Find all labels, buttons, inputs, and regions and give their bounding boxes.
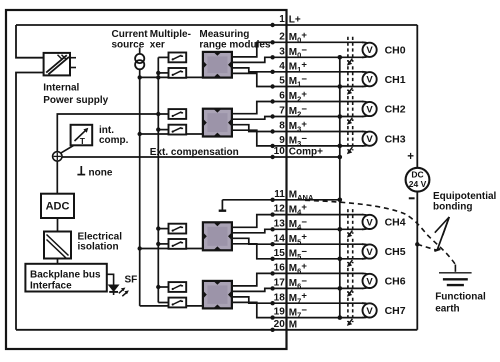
cable shield dashes CH7 [347, 298, 349, 322]
cable arrow CH6 [348, 290, 352, 295]
voltmeter CH0 connector [362, 42, 371, 45]
bus B to switch 4 [158, 129, 168, 131]
cable arrow CH5 [348, 260, 352, 265]
svg-text:6: 6 [279, 91, 285, 102]
bus B to switch 8 [158, 302, 168, 304]
svg-text:5: 5 [279, 76, 285, 87]
cable arrow CH7 [348, 319, 352, 324]
wire module 1 pin 4 to terminal 5 [232, 73, 364, 86]
internal compensation sensor [71, 125, 93, 146]
svg-text:13: 13 [274, 218, 286, 229]
junction MANA bus terminal 7 [338, 114, 343, 119]
svg-text:+: + [407, 151, 414, 163]
terminal 2 connection dot [270, 40, 274, 44]
terminal 10 connection dot [270, 155, 274, 159]
terminal 8 connection dot [270, 129, 274, 133]
wire module 3 pin 4 to terminal 15 [232, 244, 364, 259]
svg-text:CH7: CH7 [385, 305, 406, 317]
svg-text:15: 15 [274, 248, 286, 259]
label - below DC source [409, 197, 415, 199]
svg-text:12: 12 [274, 204, 286, 215]
svg-text:comp.: comp. [99, 135, 129, 146]
cable arrow CH2 [348, 118, 352, 123]
svg-text:Functional: Functional [435, 292, 486, 303]
wire L+ feed to internal supply [16, 25, 44, 58]
bus A current source vertical [139, 77, 141, 306]
svg-text:isolation: isolation [78, 242, 119, 253]
terminal 3 connection dot [270, 55, 274, 59]
wire ADC to isolation [57, 218, 59, 232]
svg-text:M: M [289, 320, 297, 331]
junction MANA bus terminal 19 [338, 315, 343, 320]
DC 24V source circle [406, 168, 430, 192]
svg-text:8: 8 [279, 121, 285, 132]
junction MANA bus terminal 5 [338, 84, 343, 89]
multiplexer switch 8 [169, 298, 187, 308]
wire isolation to backplane [57, 259, 59, 264]
bus B to switch 1 [158, 56, 168, 58]
svg-text:SF: SF [125, 275, 138, 286]
terminal 17 connection dot [270, 286, 274, 290]
voltmeter CH6 connector [362, 273, 371, 276]
measuring range module 2 [203, 109, 232, 137]
wire summing point to ADC [56, 161, 58, 194]
wire module 1 pin 2 to terminal 3 [232, 57, 364, 62]
voltmeter CH5 connector [362, 244, 371, 247]
svg-text:Comp+: Comp+ [289, 147, 323, 158]
module enclosure outline [6, 10, 287, 349]
SF LED indicator [107, 274, 114, 285]
voltmeter CH7 connector [362, 303, 371, 306]
terminal 18 connection dot [270, 301, 274, 305]
voltmeter CH5 [363, 244, 377, 258]
bus A feed module 3 [140, 248, 203, 250]
terminal 1 connection dot [270, 23, 274, 27]
svg-text:3: 3 [279, 46, 285, 57]
svg-text:14: 14 [274, 233, 286, 244]
svg-text:4: 4 [279, 61, 285, 72]
measuring range module 3 [203, 222, 232, 250]
terminal 12 connection dot [270, 212, 274, 216]
terminal 4 connection dot [270, 70, 274, 74]
cable shield dashes CH6 [347, 268, 349, 293]
ADC box [41, 194, 74, 218]
wire module 4 pin 3 to terminal 18 [232, 297, 364, 303]
svg-text:V: V [366, 276, 373, 287]
svg-text:9: 9 [279, 135, 285, 146]
terminal 9 connection dot [270, 144, 274, 148]
multiplexer switch 1 [169, 53, 187, 63]
svg-text:11: 11 [274, 189, 285, 200]
wire module 4 pin 2 to terminal 17 [232, 288, 364, 291]
junction MANA bus terminal 17 [338, 286, 343, 291]
terminal 7 connection dot [270, 114, 274, 118]
cable arrow CH4 [348, 231, 352, 236]
svg-text:Interface: Interface [30, 281, 72, 292]
wire module 2 pin 4 to terminal 9 [232, 130, 364, 146]
svg-text:7: 7 [279, 106, 285, 117]
voltmeter CH2 connector [362, 102, 371, 105]
junction MANA bus terminal 3 [338, 55, 343, 60]
cable shield dashes CH5 [347, 239, 349, 264]
svg-text:ADC: ADC [46, 200, 70, 212]
bus B to switch 6 [158, 243, 168, 245]
cable arrow CH3 [348, 147, 352, 152]
wire module 3 pin 2 to terminal 13 [232, 229, 364, 233]
terminal 13 connection dot [270, 227, 274, 231]
summing junction [53, 152, 62, 161]
svg-text:1: 1 [279, 14, 285, 25]
MANA internal reference T symbol [221, 200, 223, 210]
wire module 4 pin 1 to terminal 16 [232, 273, 364, 286]
svg-text:range modules: range modules [199, 39, 271, 50]
backplane bus interface box [25, 264, 106, 292]
wire module 3 pin 3 to terminal 14 [232, 238, 364, 244]
terminal 19 connection dot [270, 315, 274, 319]
measuring range module 4 [203, 281, 232, 309]
svg-text:V: V [366, 134, 373, 145]
voltmeter CH2 [363, 102, 377, 116]
svg-text:Ext. compensation: Ext. compensation [150, 147, 239, 158]
voltmeter CH7 [363, 303, 377, 317]
svg-text:L+: L+ [289, 15, 301, 26]
svg-text:xer: xer [150, 39, 165, 50]
voltmeter CH4 [363, 215, 377, 229]
bus A feed module 4 [140, 305, 203, 307]
terminal 6 connection dot [270, 99, 274, 103]
wire Comp+ terminal 10 [62, 156, 340, 158]
junction MANA bus terminal 15 [338, 257, 343, 262]
voltmeter CH3 connector [362, 132, 371, 135]
svg-text:17: 17 [274, 278, 286, 289]
svg-text:CH3: CH3 [385, 133, 406, 145]
wire M terminal 20 [16, 329, 417, 331]
terminal 14 connection dot [270, 242, 274, 246]
wire module 4 pin 4 to terminal 19 [232, 302, 364, 317]
svg-text:source: source [112, 39, 145, 50]
svg-text:T: T [80, 136, 86, 146]
multiplexer switch 6 [169, 239, 187, 249]
svg-text:bonding: bonding [433, 201, 472, 212]
cable shield dashes CH1 [347, 66, 349, 91]
svg-text:CH1: CH1 [385, 74, 406, 86]
svg-text:V: V [366, 45, 373, 56]
MANA bonding bus vertical [339, 57, 341, 317]
cable arrow CH0 [348, 59, 352, 64]
terminal 5 connection dot [270, 84, 274, 88]
svg-text:10: 10 [274, 146, 286, 157]
svg-text:19: 19 [274, 307, 286, 318]
wire module 1 pin 3 to terminal 4 [232, 68, 364, 72]
svg-text:V: V [366, 75, 373, 86]
bus A feed module 1 [140, 76, 203, 78]
multiplexer switch 4 [169, 125, 187, 135]
svg-text:CH5: CH5 [385, 246, 406, 258]
junction MANA bus terminal 13 [338, 227, 343, 232]
voltmeter CH4 connector [362, 215, 371, 218]
multiplexer switch 7 [169, 282, 187, 292]
terminal 20 connection dot [270, 328, 274, 332]
bus B to switch 7 [158, 286, 168, 288]
svg-text:Power supply: Power supply [43, 95, 108, 106]
svg-text:CH4: CH4 [385, 217, 406, 229]
terminal 15 connection dot [270, 257, 274, 261]
bus B to switch 5 [158, 228, 168, 230]
voltmeter CH6 [363, 274, 377, 288]
svg-text:CH6: CH6 [385, 276, 406, 288]
wire module 1 pin 1 to terminal 2 [232, 42, 364, 57]
junction equipotential at DC wire [415, 242, 419, 246]
wire MANA terminal 11 [222, 199, 339, 201]
cable arrow CH1 [348, 88, 352, 93]
junction MANA bus terminal 11 [338, 198, 343, 203]
wire module 2 pin 2 to terminal 7 [232, 117, 364, 120]
svg-text:none: none [89, 167, 113, 178]
svg-text:20: 20 [274, 319, 286, 330]
junction MANA bus terminal 10 [338, 155, 343, 160]
bus B multiplexer vertical [157, 57, 159, 302]
wire module 2 pin 3 to terminal 8 [232, 125, 364, 132]
bus A feed module 2 [140, 133, 203, 135]
svg-text:16: 16 [274, 263, 286, 274]
svg-text:CH2: CH2 [385, 104, 406, 116]
svg-text:earth: earth [435, 304, 459, 315]
cable shield dashes CH0 [347, 37, 349, 62]
internal power supply U1 [44, 53, 70, 76]
voltmeter CH0 [363, 43, 377, 57]
measuring range module 1 [203, 52, 232, 78]
svg-text:Backplane bus: Backplane bus [30, 269, 101, 280]
wire DC supply minus to M [416, 191, 418, 329]
svg-text:18: 18 [274, 292, 286, 303]
terminal 16 connection dot [270, 271, 274, 275]
bus B to switch 2 [158, 72, 168, 74]
junction MANA bus terminal 9 [338, 144, 343, 149]
cable shield dashes CH2 [347, 96, 349, 121]
svg-text:V: V [366, 247, 373, 258]
wire int comp to summing point [61, 146, 73, 153]
equipotential bonding dashed line [305, 200, 455, 264]
terminal 11 connection dot [270, 198, 274, 202]
int comp wire to bus B [57, 114, 168, 152]
multiplexer switch 2 [169, 68, 187, 78]
svg-text:V: V [366, 217, 373, 228]
wire module 2 pin 1 to terminal 6 [232, 102, 364, 114]
svg-text:CH0: CH0 [385, 45, 406, 57]
cable shield dashes CH3 [347, 126, 349, 150]
multiplexer switch 3 [169, 109, 187, 119]
wire module 3 pin 1 to terminal 12 [232, 215, 364, 228]
svg-text:Equipotential: Equipotential [433, 191, 497, 202]
voltmeter CH1 connector [362, 72, 371, 75]
bus B junction with A feed [156, 75, 160, 79]
current source symbol [139, 48, 141, 55]
none option symbol [77, 174, 85, 176]
voltmeter CH1 [363, 72, 377, 86]
wire L+ terminal 1 top line [16, 24, 417, 26]
voltmeter CH3 [363, 132, 377, 146]
cable shield dashes CH4 [347, 209, 349, 234]
wire M feed to internal supply [16, 73, 44, 330]
wire L+ down to DC supply [416, 25, 418, 168]
svg-text:V: V [366, 306, 373, 317]
svg-text:Internal: Internal [43, 83, 79, 94]
multiplexer switch 5 [169, 224, 187, 234]
functional earth symbol [439, 272, 472, 274]
svg-text:24 V: 24 V [409, 179, 427, 189]
electrical isolation box [44, 232, 71, 259]
svg-text:V: V [366, 104, 373, 115]
svg-text:2: 2 [279, 31, 285, 42]
equipotential bonding arrow [437, 217, 449, 250]
